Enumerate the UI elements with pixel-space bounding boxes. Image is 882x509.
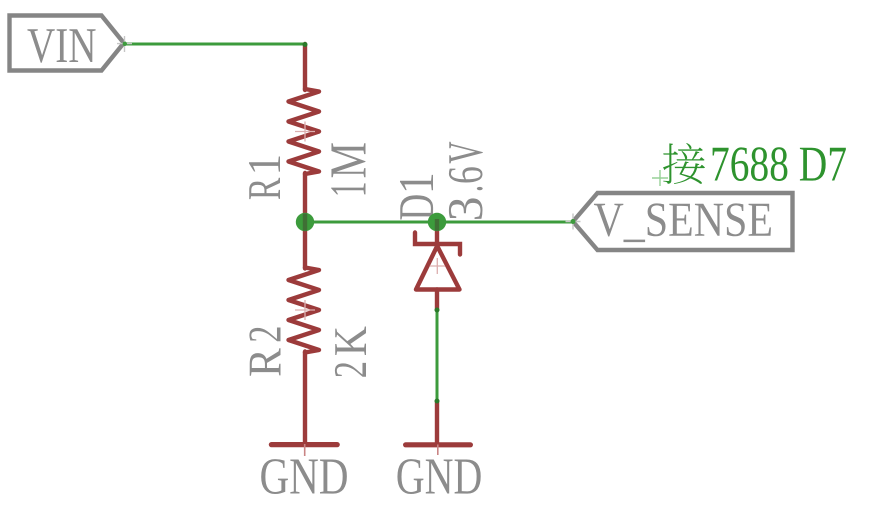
pin cross at V_SENSE tip (566, 214, 581, 230)
origin cross D1 (430, 258, 445, 274)
ground symbol GND right (406, 401, 471, 455)
wire end dot at GND right pin (435, 399, 440, 404)
annotation text origin cross (652, 170, 668, 186)
wire end dot at D1 anode (435, 308, 440, 313)
junction node D1 cathode (428, 213, 446, 231)
label R2 (249, 327, 280, 375)
flag text VIN (27, 29, 95, 62)
value 3.6V (449, 142, 483, 219)
origin cross R2 (295, 300, 315, 320)
label GND left (261, 459, 347, 494)
flag VIN (10, 16, 124, 71)
label GND right (397, 459, 480, 494)
label R1 (249, 157, 280, 200)
wire net VIN: flag to R1 top pin (125, 43, 306, 46)
wire net V_SENSE: node to flag (305, 221, 573, 224)
label D1 (400, 175, 433, 220)
zener diode D1 (415, 222, 460, 310)
pin stripe through node dot (D1 pin) (435, 219, 439, 231)
wire end dot at V_SENSE tip (571, 219, 576, 224)
origin cross R1 (295, 122, 315, 142)
wire end dot at R1 top (303, 42, 308, 47)
value 2K (335, 326, 366, 376)
resistor R1 (289, 44, 320, 222)
annotation CJK glyph jie (draw of Noto-style strokes) (663, 143, 705, 184)
ground symbol GND left (271, 444, 337, 456)
junction node R1/R2/V_SENSE (296, 213, 314, 231)
resistor R2 (289, 222, 320, 443)
flag V_SENSE (573, 193, 793, 250)
wire end dot at VIN tip (123, 42, 127, 46)
pin stripe through node dot (R2 pin) (303, 214, 307, 231)
value 1M (331, 143, 365, 194)
pin cross at VIN tip (117, 36, 132, 52)
flag text V_SENSE (594, 203, 771, 242)
annotation text 7688 D7 (713, 147, 846, 181)
wire net GND2: D1 anode to GND (436, 310, 439, 401)
